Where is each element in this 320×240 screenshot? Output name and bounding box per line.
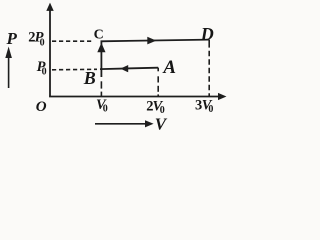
svg-text:D: D — [200, 24, 214, 44]
svg-text:O: O — [36, 99, 47, 115]
svg-text:C: C — [94, 27, 104, 42]
svg-text:0: 0 — [40, 37, 45, 48]
svg-text:P: P — [6, 29, 18, 48]
svg-text:0: 0 — [42, 67, 47, 78]
svg-text:0: 0 — [208, 104, 213, 115]
svg-text:0: 0 — [103, 104, 108, 115]
svg-text:B: B — [83, 68, 96, 88]
svg-text:A: A — [162, 57, 176, 78]
svg-text:V: V — [155, 114, 168, 133]
